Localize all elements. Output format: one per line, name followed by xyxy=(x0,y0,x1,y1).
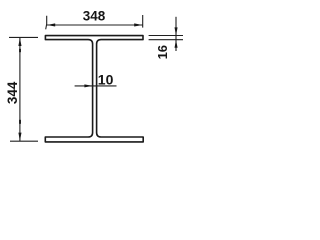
I-beam section outline xyxy=(45,36,143,142)
dim 10: leader line with underline xyxy=(75,85,117,87)
dim 344: bottom arrowhead xyxy=(18,133,21,141)
dim 348: left extension tick xyxy=(46,16,47,29)
svg-text:348: 348 xyxy=(83,9,106,24)
dim 344: bottom extension tick xyxy=(10,140,38,142)
dim 16: lower extension line xyxy=(149,39,183,41)
dim 16: upper arrowhead (points down) xyxy=(175,27,178,35)
dim 348: right arrowhead xyxy=(134,23,142,26)
dim 16: dimension line xyxy=(175,17,177,51)
dim 10: arrowhead (points right at web) xyxy=(84,84,92,87)
scan blotch on 344 dimension line (lower) xyxy=(19,120,21,124)
dim 348: dimension line xyxy=(47,24,143,26)
svg-text:10: 10 xyxy=(98,71,114,87)
dim 16: lower arrowhead (points up) xyxy=(175,40,178,48)
scan blotch on 344 dimension line (upper) xyxy=(19,49,21,52)
dim 16: upper extension line xyxy=(149,35,183,37)
dim 348: right extension tick xyxy=(142,15,144,28)
dim 344: dimension line xyxy=(19,37,21,141)
dim 348: left arrowhead xyxy=(47,23,55,26)
dim 344: top extension tick xyxy=(9,36,38,38)
dim 344: top arrowhead xyxy=(18,38,21,46)
svg-text:16: 16 xyxy=(155,45,170,59)
svg-text:344: 344 xyxy=(5,81,20,104)
